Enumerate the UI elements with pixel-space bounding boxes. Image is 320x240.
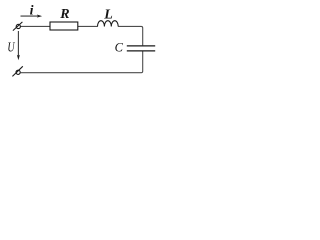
inductor L (98, 21, 119, 27)
svg-text:i: i (30, 3, 34, 18)
resistor R (50, 22, 78, 30)
svg-text:C: C (115, 41, 124, 55)
svg-text:R: R (59, 7, 69, 22)
terminal (bottom-left) (12, 66, 22, 76)
capacitor C (127, 46, 155, 51)
current arrow i (21, 15, 43, 18)
wire (top: terminal to resistor) (20, 25, 50, 27)
svg-text:L: L (103, 8, 113, 23)
wire (inductor to top-right corner, down to capacitor top plate) (118, 26, 143, 45)
wire (capacitor bottom plate to bottom-right corner and bottom run) (21, 51, 143, 73)
voltage arrow U (17, 31, 20, 60)
svg-text:U: U (7, 40, 15, 55)
wire (resistor to inductor) (78, 25, 98, 27)
terminal (top-left) (13, 22, 23, 31)
